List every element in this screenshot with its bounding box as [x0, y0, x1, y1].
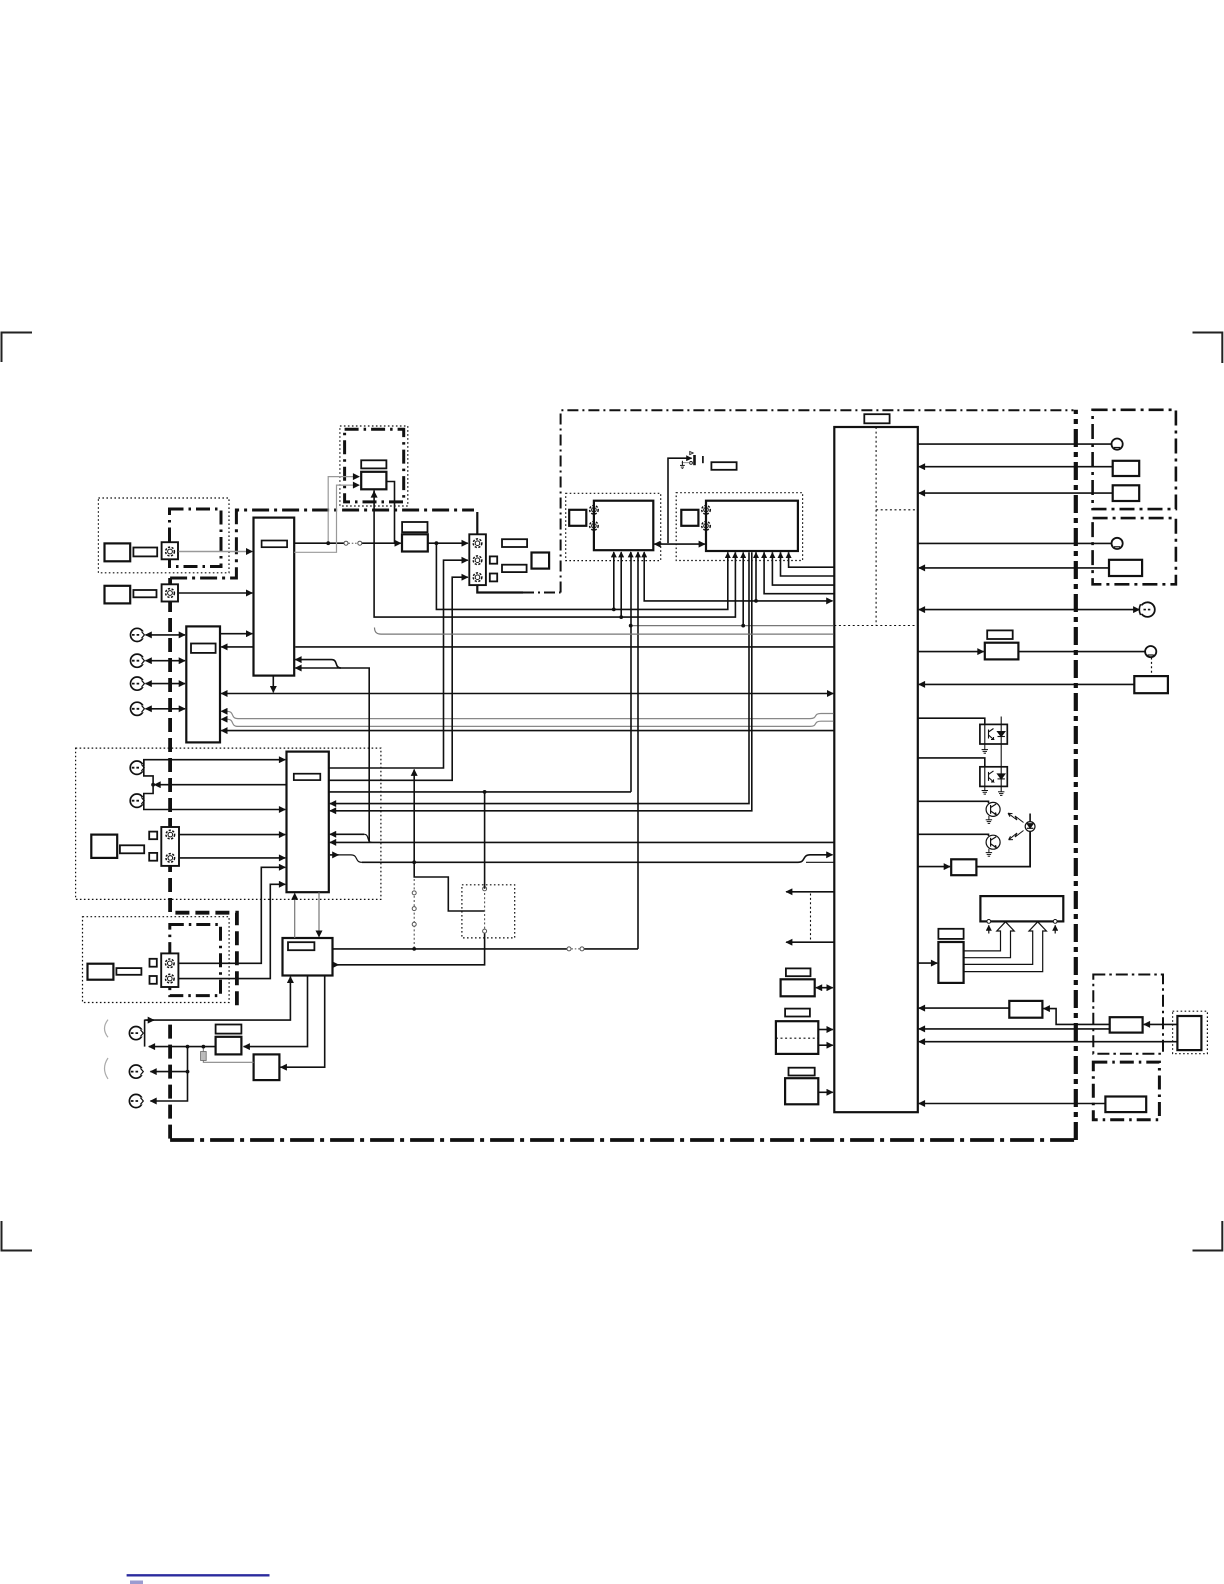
label tuner T1 [361, 460, 386, 468]
optocoupler PH1 internals [985, 717, 1005, 745]
break marker wire 543 [344, 541, 362, 545]
jack rect right 3 [1109, 560, 1142, 576]
board outline left edge (bold dashed) [170, 578, 237, 1009]
connector CN102 jack body [162, 584, 178, 601]
wire CN501 pin2 to IC3 [179, 857, 285, 859]
block inside adaptor box [1110, 1017, 1143, 1032]
jack J9 [129, 1094, 145, 1107]
connector CN501 plug rect [91, 835, 117, 858]
stub J7 [144, 1020, 146, 1047]
footer rule (blue) [127, 1574, 270, 1576]
board outline top edge (dash-dot) [561, 410, 1074, 592]
page crop mark top-left [2, 333, 33, 363]
CN501 pin2 circle [166, 854, 175, 863]
remote sensor circle with dash [1138, 602, 1155, 617]
CN701 key square 2 [150, 976, 157, 984]
wire bus 609 [436, 543, 727, 609]
label IC2 [262, 541, 288, 548]
motor block pin circle left [987, 920, 991, 924]
transistor Q2 [986, 835, 1000, 849]
wire resonator to interblock net [668, 458, 692, 543]
connector CN101 plug rect [105, 543, 131, 561]
connector CN701 body [161, 953, 178, 987]
block IF demod [402, 534, 428, 551]
wire step riser down to CN-D [414, 770, 484, 911]
wire IC2 to tuner pin2 (gray) [294, 485, 359, 552]
board outline right edge (bold dashed) [1074, 410, 1078, 1140]
wire IC901 to Q901 [918, 866, 950, 868]
wire REG901 to power jack [1018, 651, 1145, 653]
wire J5 to IC3 [144, 760, 285, 766]
wire battery to adaptor block [1144, 1023, 1178, 1025]
IC302 pin circle 1 [702, 506, 711, 515]
wire IC2 668 stub [295, 667, 341, 669]
block IC703 [254, 1054, 280, 1080]
wire CN501 pin1 to IC3 [179, 834, 285, 836]
wire bus 601 IC301 pin5 to IC901 [644, 552, 832, 601]
wire jack rect3 to IC901 [919, 567, 1109, 569]
jack J8 [129, 1065, 145, 1078]
block IC801 dcdc [938, 942, 963, 983]
wire branch to tuner pin1 (gray riser) [328, 477, 359, 544]
block IC901 syscon (main IC) [834, 427, 918, 1112]
wire R2 to IC901 [919, 1007, 1010, 1009]
wire J6 to IC3 [144, 801, 285, 810]
label CN301 b [502, 565, 527, 572]
dash-dot box top-right jacks [1093, 410, 1176, 509]
wire IC301 pin3 down to bus 792 [630, 552, 632, 792]
wire CN101 to IC2 (gray) [179, 551, 253, 553]
wire branch to J8 [150, 1071, 187, 1073]
wire IC301 pin4 long riser to bus 949 [637, 552, 639, 949]
label IC1 [191, 644, 216, 653]
CN301 pin1 circle [473, 539, 482, 548]
label CN301 a [502, 539, 527, 547]
optocoupler PH2 internals [985, 744, 1005, 792]
CN301 pin2 circle [473, 556, 482, 565]
wire gray bus 625 to IC901 [631, 625, 834, 627]
wire IC901 to transistor Q1 [918, 801, 989, 803]
block inside battery pack box [1105, 1097, 1146, 1113]
board outline left lower edge (bold dashed) [168, 1025, 172, 1140]
wire J7 up to IC701 [145, 977, 291, 1020]
IC301 pin circle 2 [590, 522, 599, 531]
label IC3 [294, 774, 321, 780]
block DC IN jack box [1134, 676, 1168, 693]
wire IF block to CN301 pin1 [428, 542, 468, 544]
wire bus 949 right part [584, 948, 638, 950]
wire IC901 out-left upper [786, 891, 833, 893]
jack J1 audio L out [131, 628, 147, 641]
optocoupler PH1 box [980, 724, 1007, 744]
wire IC901 to IC801 [918, 962, 937, 964]
hollow power arrow 2 [964, 922, 1047, 972]
wire IC302 pin4 to bus 601 [755, 552, 757, 601]
dotted box around CN7 bottom-left [83, 917, 230, 1003]
key square IC301 [569, 510, 586, 526]
connector CN101 jack body [162, 542, 178, 559]
motor block pin arrow right [1054, 925, 1056, 933]
power jack dotted link [1151, 658, 1153, 676]
link connector dashed (left) [412, 879, 416, 947]
block IC301 [594, 501, 653, 551]
jack J2 audio R out [131, 654, 147, 667]
ground under PH2 led [998, 792, 1004, 796]
IC301 pin circle 1 [590, 506, 599, 515]
label CN701 cable [116, 968, 141, 975]
bead component [201, 1052, 207, 1061]
label B1 [786, 968, 811, 976]
gray bead drop to IC703 [203, 1047, 253, 1063]
board outline connector notch [477, 585, 523, 592]
dotted box around IC301 [566, 493, 661, 560]
wire tuner down to bus 617 to IC302 pin [374, 491, 735, 618]
CN301 key square 1 [490, 556, 497, 563]
wire IC701 down to IC703 [281, 976, 325, 1068]
wire bus 647 IC2 to IC901 [295, 646, 833, 648]
wire IC3 mute out to ladder [154, 784, 286, 786]
wire jack J4 to IC1 [146, 708, 186, 710]
wire IC302 pair a to IC3 [330, 552, 749, 803]
dotted link between out-left wires [810, 894, 812, 941]
bold dash-dot board box bottom-left [170, 925, 221, 996]
wire battery low to IC901 [919, 1041, 1178, 1043]
wire bus 792 IC3 to pin3 riser [329, 791, 631, 793]
brace mark upper [105, 1020, 109, 1038]
wire IC301 pin2 to bus 617 [620, 552, 622, 617]
dotted box CN-D board link [462, 885, 515, 938]
wire IC3 gray pin down to IC701 b [318, 892, 320, 937]
label IC801 [938, 929, 963, 939]
wire CN102 to IC2 [179, 592, 253, 594]
brace mark lower [105, 1058, 109, 1079]
wire IC302 pin5 to IC901 [764, 552, 833, 594]
ground under PH2 left [982, 786, 988, 794]
dash-dot box right adaptor [1093, 975, 1163, 1054]
wire IC301-IC302 link [654, 543, 705, 545]
CN501 pin1 circle [166, 830, 175, 839]
wire J5-J6 ladder [144, 760, 153, 801]
dotted box battery [1173, 1011, 1208, 1053]
block IC302 [706, 501, 798, 551]
optocoupler PH2 box [980, 767, 1007, 787]
wire IC901 to jack circle TR1 [918, 443, 1112, 445]
wire jack rect2 to IC901 [919, 492, 1113, 494]
block B1 reset [781, 979, 815, 996]
block IC3 video amp [287, 752, 329, 893]
dotted box around IC302 [676, 493, 802, 561]
board outline bottom edge (bold dash-dot) [170, 1138, 1076, 1142]
key square IC302 [681, 510, 698, 526]
jack J3 [131, 677, 147, 690]
label CN501 cable [120, 845, 144, 853]
arrow step riser to bus 768 [413, 770, 415, 773]
wire branch to J8 J9 [150, 1047, 187, 1101]
wire IC2 to IF block left part [294, 542, 344, 544]
block B2 eeprom [776, 1021, 818, 1054]
wire IC302 pin6 to IC901 [772, 552, 833, 585]
IC901 internal divider h1 (dotted) [876, 509, 918, 511]
wire IC901 out-left lower [786, 941, 833, 943]
wire IC302 pin3 stub to bus 625 [742, 552, 744, 625]
wire tuner out to IF block [386, 482, 394, 544]
label IC901 top [864, 414, 889, 423]
jog stub-854 to bus 862 [338, 855, 362, 862]
wire adaptor block to IC901 [919, 1028, 1110, 1030]
wire B2 to IC901 b [818, 1044, 833, 1046]
resonator X901 symbol [680, 452, 703, 469]
wire IC901 to opto1 [918, 718, 985, 723]
CN701 pin1 circle [166, 959, 175, 968]
wire bus 862 straight tail [806, 861, 834, 863]
CN301 key square 2 [490, 574, 497, 582]
wire IC302 pair b to IC3 [330, 552, 752, 811]
wire IC3 854 out stub arrow [330, 854, 339, 856]
wire DC block to IC901 [919, 683, 1135, 685]
wire IC3 to CN301 pin2 [329, 560, 468, 768]
ground under PH1 [982, 744, 988, 753]
CN501 key square 1 [149, 832, 157, 840]
block IC2 switch [254, 518, 295, 676]
wire B1 bidir to IC901 [816, 987, 833, 989]
label CN102 cable [133, 590, 156, 597]
wire jack J3 to IC1 [146, 683, 186, 685]
IC901 internal divider h2 (dotted) [834, 625, 918, 627]
wire IC3 stub 834 [330, 833, 364, 835]
wire IC3 to CN301 pin3 [329, 577, 468, 780]
jack rect top-right 2 [1113, 485, 1140, 501]
motor block pin arrow left [988, 925, 990, 933]
wire Q901 to LED riser [976, 832, 1030, 867]
IC302 bottom pin arrows [728, 553, 789, 557]
wire adaptor block to R2 [1044, 1009, 1110, 1025]
jack J7 [129, 1027, 145, 1040]
wire IC901 to opto2 [918, 758, 985, 766]
board outline upper-left step (bold dash-dot) [170, 510, 474, 578]
jog stub-834 to bus 842 [364, 834, 371, 842]
connector CN102 plug rect [105, 586, 131, 604]
block B2 divider (dotted) [776, 1037, 818, 1039]
break marker bus 949 [567, 947, 584, 951]
hollow power arrow 1 [964, 922, 1015, 958]
link connector CN-D dashed [483, 887, 487, 933]
label IC701 [288, 942, 314, 950]
wire B2 to IC901 a [818, 1029, 833, 1031]
power jack circle [1145, 646, 1156, 657]
connector CN501 body [161, 827, 179, 866]
CN501 key square 2 [149, 853, 157, 861]
jack rect top-right 1 [1113, 461, 1140, 476]
wire CN-D riser top [484, 792, 486, 889]
wire IC2 bottom pin to bus 694 [272, 676, 274, 693]
dash-dot box right jacks 2 [1093, 518, 1176, 584]
wire IC302 pin7 to IC901 [781, 552, 834, 576]
block battery cell [1177, 1016, 1201, 1050]
block IC702 [216, 1037, 242, 1055]
block B3 osc [785, 1078, 818, 1104]
dotted box around tuner block top [340, 426, 408, 506]
wire IC901 to transistor Q2 [918, 834, 989, 836]
wire IC701 down to IC702 [244, 976, 308, 1047]
label REG901 [987, 630, 1013, 639]
bold dash-dot board box around tuner [345, 429, 404, 502]
wire gray bus 718 jog [221, 711, 833, 718]
jack J5 video in L [130, 761, 146, 774]
wire jack J2 to IC1 [146, 660, 186, 662]
wire IC3 gray pin down to IC701 a [294, 893, 296, 938]
IC301 bottom pin arrows [614, 552, 644, 556]
page crop mark bottom-left [2, 1221, 33, 1251]
footer text remnant [130, 1581, 143, 1584]
block IC1 audio amp [186, 626, 220, 742]
label IC702 [216, 1025, 242, 1034]
ground under Q2 [986, 849, 992, 856]
motor block pin circle right [1053, 920, 1057, 924]
transistor Q1 [986, 802, 1000, 816]
wire gray bus 634 [375, 628, 834, 635]
block tuner T1 [361, 472, 386, 490]
arrow IC701 out right [333, 964, 339, 966]
wire IC702 to J7 [149, 1046, 216, 1048]
jack J6 video in R [130, 794, 146, 807]
connector CN701 plug rect [88, 964, 114, 980]
CN301 pin3 circle [473, 573, 482, 582]
block IC701 servo [283, 938, 333, 976]
CN701 pin2 circle [166, 974, 175, 983]
wire bus 694 IC1 to IC901 [221, 693, 833, 695]
CN102 pin circle [166, 589, 175, 598]
bold dash-dot box battery pack [1093, 1062, 1159, 1120]
block Q901 driver [951, 859, 976, 875]
junction dots [151, 541, 758, 1073]
jack J4 [131, 702, 147, 715]
wire IC701 to CN-D riser to bus 792 [333, 931, 485, 965]
CN101 pin circle [166, 547, 175, 556]
ground under Q1 [986, 816, 992, 823]
wire bus 949 IC701 to riser [333, 948, 568, 950]
IC901 internal divider vertical (dotted) [875, 427, 877, 626]
block shield square [532, 553, 550, 569]
IC302 pin circle 2 [702, 522, 711, 531]
arrow J7 wire direction [147, 1019, 155, 1021]
wire IC301 pin1 to bus 609 [613, 552, 615, 609]
wire IC302 pin8 to IC901 [789, 552, 834, 567]
label CN101 cable [133, 548, 157, 557]
wire gray bus 726 jog [221, 719, 833, 726]
label IF demod [402, 522, 427, 532]
wire IC2 659-668 jog riser [295, 660, 369, 843]
wire B3 to IC901 [818, 1091, 833, 1093]
wire bus 842 IC901 to IC3 [330, 841, 834, 843]
wire jack rect1 to IC901 [919, 466, 1113, 468]
wire IC1 to IC2 [220, 633, 252, 635]
wire bus 862 to IC901 jog [362, 855, 833, 863]
bold dash-dot board box top-left [170, 509, 222, 567]
page crop mark top-right [1193, 333, 1223, 364]
wire CN701 pin2 up to IC3 [178, 884, 285, 978]
label B2 [785, 1009, 810, 1017]
LED D901 [1025, 814, 1035, 832]
page crop mark bottom-right [1193, 1221, 1223, 1251]
label B3 [789, 1068, 815, 1076]
wire CN701 pin1 up to IC3 [178, 867, 285, 963]
jack circle right 2 [1112, 538, 1123, 549]
block R2 charge [1009, 1001, 1042, 1018]
dotted box around CN101 top-left [98, 498, 229, 573]
light ray arrows [1008, 813, 1024, 840]
wire IC901 to REG901 [918, 651, 984, 653]
connector CN301 3pin body [469, 534, 486, 585]
wire IC2 to IF block right part [362, 542, 401, 544]
block M901 motor driver [980, 896, 1063, 921]
wire bus 730 [221, 730, 833, 732]
wire remote bidir [919, 609, 1140, 611]
label X901 resonator [711, 462, 736, 470]
arrow tuner bottom [373, 491, 375, 496]
wire battery pack block to IC901 [919, 1103, 1106, 1105]
jack circle top-right 1 [1112, 439, 1123, 450]
block REG901 [985, 643, 1019, 660]
wire jack J1 to IC1 [146, 634, 186, 636]
wire bus 647 to IC1 [221, 646, 253, 648]
wire IC901 to jack circle R2 [918, 542, 1112, 544]
dotted box around audio jacks CN5 [76, 748, 381, 899]
CN701 key square 1 [150, 959, 157, 967]
